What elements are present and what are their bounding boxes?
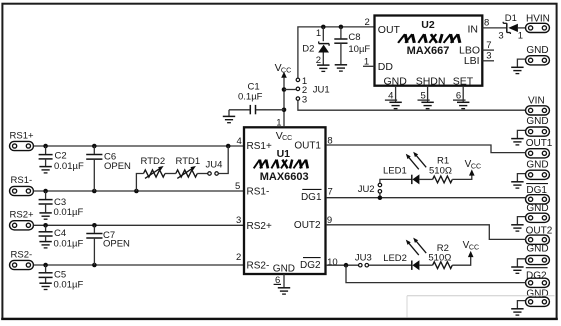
svg-text:LBI: LBI — [464, 55, 480, 67]
svg-text:SHDN: SHDN — [416, 75, 446, 87]
capacitor C4 0.01uF — [39, 225, 84, 249]
capacitor C5 0.01uF — [39, 265, 84, 291]
svg-text:GND: GND — [526, 45, 548, 56]
node RS2-/C5 — [43, 263, 48, 268]
label U1 DG2 — [300, 258, 321, 271]
wire VCC vertical to U1 pin1 — [283, 77, 285, 127]
ground C1 — [223, 110, 235, 123]
connector OUT2 label — [526, 225, 553, 236]
wire RTD branch left — [136, 174, 143, 192]
svg-text:0.1µF: 0.1µF — [238, 92, 263, 103]
capacitor C6 OPEN — [86, 146, 131, 191]
pin 10 label — [327, 257, 338, 268]
label U2 — [421, 19, 435, 31]
svg-text:GND: GND — [526, 116, 548, 127]
label U1 VCC pin name — [276, 130, 292, 142]
pin 6 label — [274, 275, 281, 286]
svg-text:510Ω: 510Ω — [429, 165, 452, 176]
diode D1 — [503, 22, 518, 34]
pin 3 label U2 — [482, 51, 494, 62]
diode D2 zener — [318, 27, 329, 65]
svg-text:RS2-: RS2- — [247, 261, 270, 272]
connector RS2- — [10, 260, 34, 269]
wire DG1 net — [326, 197, 526, 199]
svg-text:3: 3 — [302, 95, 307, 106]
power VCC R2 arrow — [463, 240, 479, 257]
svg-text:IN: IN — [468, 24, 479, 36]
pin 5 label U2 — [418, 91, 430, 102]
connector GND2 with ground — [511, 127, 549, 145]
connector DG1 — [526, 195, 550, 204]
pin 1 label — [276, 118, 281, 129]
svg-text:DG1: DG1 — [301, 192, 322, 203]
label U1 RS1- — [247, 186, 270, 197]
svg-text:RS1+: RS1+ — [247, 141, 272, 152]
svg-text:OUT1: OUT1 — [526, 138, 553, 149]
label U2 SHDN — [416, 75, 446, 87]
svg-text:RTD1: RTD1 — [176, 156, 201, 167]
svg-text:C8: C8 — [348, 32, 360, 43]
connector DG2 — [526, 278, 550, 287]
node RS1+/RTD — [226, 144, 231, 149]
pin 6 label U2 — [453, 91, 466, 102]
node RS2-/C7 — [92, 263, 97, 268]
label R2 — [428, 243, 451, 264]
connector GND4 with ground — [511, 213, 549, 231]
svg-text:2: 2 — [236, 252, 241, 263]
ground U2 pin6 — [457, 86, 469, 109]
svg-text:8: 8 — [484, 17, 489, 28]
regulator U2 MAX667 body — [375, 16, 483, 86]
pin 9 label — [327, 215, 332, 226]
connector GND6 label — [526, 288, 548, 299]
wire U2 IN to D1 — [482, 27, 506, 29]
svg-text:2: 2 — [365, 17, 370, 28]
svg-text:GND: GND — [384, 75, 408, 87]
svg-text:3: 3 — [236, 215, 241, 226]
connector RS2+ — [10, 221, 34, 230]
connector RS1- label — [11, 175, 33, 186]
label U2 OUT — [378, 24, 401, 36]
svg-text:MAX6603: MAX6603 — [260, 171, 309, 183]
svg-text:CC: CC — [469, 244, 479, 251]
connector HVIN label — [526, 14, 550, 25]
svg-text:OUT1: OUT1 — [294, 140, 321, 151]
connector OUT2 — [526, 235, 550, 244]
pin 1 label U2 — [364, 57, 369, 68]
label U2 IN — [468, 24, 479, 36]
label U1 — [277, 148, 291, 160]
wire JU1 pin1 to U2 OUT net — [298, 27, 375, 78]
svg-text:10µF: 10µF — [348, 44, 370, 55]
label U1 RS1+ — [247, 141, 272, 152]
pin 7 label — [328, 187, 333, 198]
node DG1/JU2 — [378, 195, 383, 200]
connector OUT1 — [526, 149, 550, 158]
wire JU3 to LED2 — [369, 264, 412, 266]
svg-text:JU2: JU2 — [358, 184, 375, 195]
capacitor C7 OPEN — [86, 225, 130, 265]
svg-text:LED1: LED1 — [383, 166, 407, 177]
pin 5 label — [235, 181, 240, 192]
label D2 — [302, 28, 321, 66]
connector GND3 label — [526, 160, 548, 171]
wire DG2 lower — [346, 265, 526, 282]
connector GND6 with ground — [511, 297, 549, 315]
node OUT/C8 — [339, 25, 344, 30]
svg-text:D1: D1 — [505, 13, 517, 24]
capacitor C2 0.01uF — [39, 146, 84, 173]
resistor RTD1 — [176, 166, 198, 178]
logo MAXIM U2 — [398, 34, 460, 43]
wire D1 to HVIN — [518, 27, 526, 29]
svg-text:GND: GND — [273, 263, 295, 274]
node RS2+/C4 — [43, 223, 48, 228]
wire OUT2 net — [326, 225, 526, 240]
pin 2 label U2 — [365, 17, 370, 28]
label MAX667 — [407, 45, 450, 57]
pin 8 label U2 — [484, 17, 489, 28]
label RTD1 — [176, 156, 201, 167]
pin 4 label U2 — [385, 91, 397, 102]
wire RS2- net — [34, 264, 244, 266]
wire RS2+ net — [34, 224, 244, 226]
wire JU2 to LED1 — [380, 179, 412, 183]
svg-text:RS1-: RS1- — [247, 186, 270, 197]
svg-text:MAX667: MAX667 — [407, 45, 450, 57]
svg-text:4: 4 — [237, 136, 242, 147]
label U1 OUT1 — [294, 140, 321, 151]
label U2 GND — [384, 75, 408, 87]
pin 8 label — [327, 135, 332, 146]
jumper JU1 — [296, 76, 330, 106]
power VCC R1 arrow — [465, 159, 481, 176]
node VCC/JU1 — [282, 87, 287, 92]
label U1 GND — [273, 263, 295, 274]
svg-text:CC: CC — [471, 163, 481, 170]
svg-text:510Ω: 510Ω — [428, 253, 451, 264]
wire JU4 to RS1+ — [219, 146, 229, 174]
svg-text:0.01µF: 0.01µF — [54, 207, 84, 218]
svg-text:GND: GND — [526, 203, 548, 214]
power VCC main arrow — [275, 62, 292, 78]
LED LED2 — [406, 238, 426, 271]
label U2 DD — [378, 61, 394, 73]
svg-text:OUT2: OUT2 — [294, 220, 321, 231]
faint divider lines bottom right — [407, 296, 555, 318]
connector RS1- — [10, 186, 34, 195]
node DG2/JU3 — [344, 263, 349, 268]
svg-text:SET: SET — [453, 75, 474, 87]
LED LED1 — [406, 152, 426, 185]
connector VIN — [526, 106, 550, 115]
wire JU1 pin3 to VIN — [298, 101, 526, 111]
wire LED2 to R2 — [419, 264, 432, 266]
connector RS2- label — [11, 250, 33, 261]
svg-text:GND: GND — [526, 244, 548, 255]
svg-text:RS2+: RS2+ — [247, 221, 272, 232]
svg-text:10: 10 — [327, 257, 338, 268]
connector GND4 label — [526, 203, 548, 214]
resistor R2 510 — [433, 262, 453, 269]
svg-text:RS2+: RS2+ — [10, 210, 34, 221]
connector GND5 with ground — [511, 255, 549, 273]
wire RTD2-RTD1 — [165, 173, 176, 175]
jumper JU3 — [355, 253, 372, 267]
svg-text:1: 1 — [276, 118, 281, 129]
svg-text:C3: C3 — [54, 197, 66, 208]
connector GND2 label — [526, 116, 548, 127]
svg-text:DD: DD — [378, 61, 394, 73]
node RS1-/C6 — [92, 189, 97, 194]
svg-text:0.01µF: 0.01µF — [54, 161, 84, 172]
svg-text:OPEN: OPEN — [103, 238, 130, 249]
capacitor C8 10uF — [334, 27, 370, 64]
svg-text:1: 1 — [316, 28, 321, 39]
svg-text:RS1-: RS1- — [11, 175, 33, 186]
wire DG2 pin stub — [326, 264, 358, 266]
svg-text:7: 7 — [328, 187, 333, 198]
label D1 — [498, 13, 523, 41]
connector RS1+ — [10, 141, 34, 150]
logo MAXIM U1 — [254, 160, 308, 169]
capacitor C3 0.01uF — [39, 191, 84, 219]
svg-text:RTD2: RTD2 — [141, 156, 166, 167]
pin 7 label U2 — [482, 40, 494, 51]
resistor R1 510 — [433, 176, 453, 183]
connector GND3 with ground — [511, 170, 549, 188]
node RS1-/RTD — [134, 189, 139, 194]
pin 3 label — [236, 215, 241, 226]
wire LED1 to R1 — [419, 178, 432, 180]
resistor RTD2 — [144, 166, 166, 178]
label LED2 — [383, 253, 407, 264]
svg-text:3: 3 — [486, 51, 491, 62]
label R1 — [429, 155, 452, 176]
node RS2+/C7 — [92, 223, 97, 228]
wire RTD1-JU4 — [197, 173, 207, 175]
label LED1 — [383, 166, 407, 177]
svg-text:RS2-: RS2- — [11, 250, 33, 261]
svg-text:0.01µF: 0.01µF — [54, 280, 84, 291]
connector HVIN — [526, 23, 550, 32]
connector GND5 label — [526, 244, 548, 255]
ground U2 pin4 — [389, 86, 401, 109]
connector GND1 label — [526, 45, 548, 56]
node RS1+/C2 — [43, 144, 48, 149]
label U1 OUT2 — [294, 220, 321, 231]
pin 2 label — [236, 252, 241, 263]
svg-text:JU4: JU4 — [206, 159, 223, 170]
ground U1 pin6 — [278, 274, 290, 294]
svg-text:CC: CC — [282, 135, 292, 142]
svg-text:VIN: VIN — [528, 96, 545, 107]
svg-text:DG2: DG2 — [300, 260, 321, 271]
connector RS1+ label — [10, 130, 34, 141]
svg-text:U2: U2 — [421, 19, 435, 31]
ground C8 — [335, 65, 347, 71]
wire U2 DD stub — [363, 65, 374, 67]
ground U2 pin5 — [421, 86, 433, 109]
svg-text:RS1+: RS1+ — [10, 130, 34, 141]
jumper JU4 — [206, 159, 223, 175]
node VCC/C1 — [282, 108, 287, 113]
node RS1+/C6 — [92, 144, 97, 149]
svg-text:OPEN: OPEN — [104, 161, 131, 172]
ground D2 — [317, 65, 329, 71]
wire JU1 pin2 to VCC — [284, 89, 296, 91]
svg-text:OUT: OUT — [378, 24, 401, 36]
svg-text:3: 3 — [498, 30, 503, 41]
svg-text:U1: U1 — [277, 148, 291, 160]
svg-text:LED2: LED2 — [383, 253, 407, 264]
connector VIN label — [528, 96, 545, 107]
svg-text:GND: GND — [526, 160, 548, 171]
label U1 RS2- — [247, 261, 270, 272]
svg-text:5: 5 — [235, 181, 240, 192]
op-amp U1 MAX6603 body — [244, 127, 326, 274]
wire R1 to VCC — [452, 175, 472, 179]
node OUT/D2 — [321, 25, 326, 30]
svg-text:1: 1 — [518, 30, 523, 41]
label U2 LBI — [464, 55, 480, 67]
wire RS1+ net — [34, 145, 244, 147]
label RTD2 — [141, 156, 166, 167]
svg-text:D2: D2 — [302, 43, 314, 54]
label U1 DG1 — [301, 189, 322, 202]
pin 4 label — [237, 136, 242, 147]
label U2 SET — [453, 75, 474, 87]
label U2 LBO — [459, 45, 480, 57]
wire R2 to VCC — [452, 257, 470, 265]
svg-text:7: 7 — [486, 40, 491, 51]
connector DG2 label — [526, 268, 548, 282]
svg-text:JU1: JU1 — [313, 85, 330, 96]
svg-text:JU3: JU3 — [355, 253, 372, 264]
connector OUT1 label — [526, 138, 553, 149]
connector RS2+ label — [10, 210, 34, 221]
svg-text:CC: CC — [281, 65, 291, 74]
capacitor C1 0.1uF — [229, 82, 284, 115]
svg-text:0.01µF: 0.01µF — [54, 238, 84, 249]
connector DG1 label — [526, 184, 548, 196]
label MAX6603 — [260, 171, 309, 183]
wire RS1- net — [34, 190, 244, 192]
connector GND1 with ground — [511, 56, 549, 74]
node RS1-/C3 — [43, 189, 48, 194]
label U1 RS2+ — [247, 221, 272, 232]
wire OUT1 net — [326, 145, 526, 153]
jumper JU2 — [358, 183, 382, 195]
